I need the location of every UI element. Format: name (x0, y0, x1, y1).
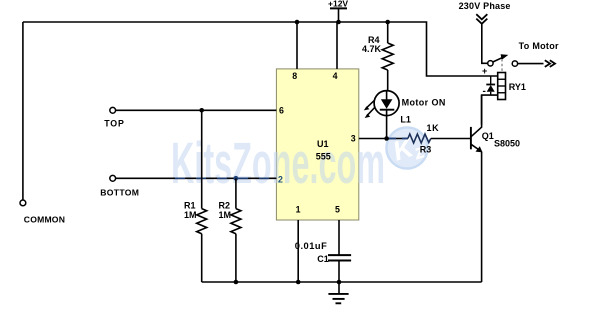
LED L1 (374, 91, 399, 116)
LED emission arrow 2 (365, 107, 375, 118)
svg-text:COMMON: COMMON (24, 215, 65, 225)
junction bottom rail / C1-ground (337, 280, 342, 285)
wire: BOTTOM to pin 2 (116, 177, 277, 179)
wire: R2 bottom lead (235, 234, 237, 282)
svg-text:C1: C1 (317, 254, 329, 264)
wire: 230V down to switch (482, 23, 488, 63)
svg-text:+12V: +12V (328, 0, 348, 9)
svg-text:U1: U1 (317, 139, 329, 149)
wire: blue dashed highlight on pin2 net (175, 177, 276, 179)
junction bottom rail / R2 (234, 280, 239, 285)
svg-text:6: 6 (279, 105, 284, 115)
wire: top +12V rail (23, 22, 498, 76)
wire: R2 top lead from BOTTOM wire (235, 178, 237, 208)
relay RY1 coil (498, 73, 506, 100)
junction TOP wire / R1 (199, 108, 204, 113)
svg-text:Motor ON: Motor ON (402, 97, 446, 107)
svg-text:230V Phase: 230V Phase (459, 1, 511, 11)
svg-text:1M: 1M (219, 210, 232, 220)
capacitor C1 (328, 255, 351, 260)
wire: left vertical to COMMON (22, 22, 24, 200)
wire: R4 to LED (387, 70, 389, 91)
diode flyback (across coil) (486, 76, 495, 95)
230V Phase entry chevron (476, 14, 487, 24)
svg-text:8: 8 (292, 71, 297, 81)
svg-text:555: 555 (316, 151, 331, 161)
junction on rail at R4 (385, 20, 390, 25)
watermark KitsZone.com (171, 131, 385, 196)
wire: pin 3 to R3 (359, 138, 408, 140)
junction on rail at +12V (336, 20, 341, 25)
LED emission arrow 1 (364, 100, 375, 110)
wire: R3 to Q1 base (431, 138, 470, 140)
relay switch NO contact (512, 61, 517, 66)
svg-text:RY1: RY1 (509, 82, 526, 92)
wire: pin 5 to C1 (338, 220, 340, 255)
svg-text:Q1: Q1 (482, 131, 494, 141)
svg-text:TOP: TOP (104, 119, 124, 129)
node TOP terminal (110, 107, 116, 113)
wire: relay minus to collector (482, 95, 498, 124)
svg-text:5: 5 (335, 205, 340, 215)
svg-text:2: 2 (278, 175, 283, 185)
node BOTTOM terminal (110, 175, 116, 181)
power +12V terminal (328, 0, 348, 22)
To Motor exit chevron (545, 60, 555, 67)
svg-text:To Motor: To Motor (519, 41, 559, 51)
wire: bottom ground rail (202, 281, 482, 283)
svg-text:L1: L1 (400, 114, 411, 124)
svg-text:R2: R2 (219, 200, 231, 210)
wire: TOP to pin 6 (116, 109, 277, 111)
watermark logo circle Kz (386, 127, 427, 170)
svg-text:BOTTOM: BOTTOM (100, 187, 139, 197)
wire: blue dashed highlight on pin3 net (389, 138, 408, 140)
IC U1 555 body (yellow box) (276, 69, 358, 220)
relay switch common contact (488, 61, 493, 66)
wire: R1 top lead from TOP wire (201, 110, 203, 208)
svg-text:1K: 1K (427, 123, 440, 133)
resistor R2 (231, 209, 241, 234)
node COMMON terminal (20, 200, 26, 206)
svg-text:R3: R3 (420, 145, 432, 155)
transistor Q1 (471, 95, 483, 282)
svg-text:3: 3 (351, 134, 356, 144)
svg-text:R1: R1 (184, 200, 196, 210)
svg-text:+: + (482, 66, 487, 76)
wire: pin 4 stub to rail (336, 22, 338, 69)
wire: LED to pin3 node (386, 116, 388, 139)
relay switch arm with arrow (493, 54, 509, 62)
junction bottom rail / pin1 (296, 280, 301, 285)
svg-text:4.7K: 4.7K (362, 44, 382, 54)
wire: pin 1 to bottom rail (297, 220, 299, 282)
wire: C1 to bottom rail (338, 261, 340, 283)
svg-text:4: 4 (333, 71, 338, 81)
junction on rail at pin8 (295, 20, 300, 25)
junction pin3 wire / LED (384, 136, 389, 141)
wire: switch to motor chevron (518, 63, 544, 65)
svg-text:S8050: S8050 (494, 138, 520, 148)
resistor R1 (197, 209, 207, 234)
wire: R1 bottom lead (201, 234, 203, 282)
resistor R4 (382, 43, 393, 70)
wire: pin 8 stub to rail (296, 22, 298, 69)
dashed actuation link (501, 59, 503, 73)
svg-text:1M: 1M (184, 210, 197, 220)
wire: R4 top lead from rail (387, 22, 389, 43)
junction BOTTOM wire / R2 (234, 176, 239, 181)
resistor R3 (408, 134, 431, 143)
ground (328, 282, 348, 303)
svg-text:1: 1 (296, 205, 301, 215)
svg-text:0.01uF: 0.01uF (295, 241, 327, 251)
